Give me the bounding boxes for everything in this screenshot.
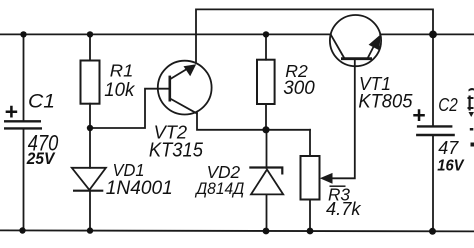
svg-text:4.7k: 4.7k (326, 198, 362, 219)
wire R3 top lead (309, 130, 311, 156)
transistor VT1 (330, 15, 381, 66)
potentiometer R3 (301, 156, 333, 200)
wire top outer rail (VT2 emitter to output node) (196, 9, 433, 62)
label R3 overline (330, 185, 346, 187)
resistor R2 (257, 60, 275, 104)
wire R1 bottom lead (89, 104, 91, 128)
capacitor C2 (416, 126, 455, 135)
wire C2 bottom lead (432, 135, 434, 231)
wire top rail left (input +) (0, 33, 331, 35)
junction VD1 bottom (87, 227, 93, 233)
svg-text:C1: C1 (28, 90, 55, 112)
wire VD2 cathode lead (266, 130, 268, 168)
svg-text:25V: 25V (26, 150, 56, 168)
wire C1 top lead (23, 34, 25, 121)
svg-text:KT315: KT315 (149, 139, 204, 162)
junction C1 bottom (19, 227, 25, 233)
junction R1 top (87, 31, 93, 37)
junction C1 top (20, 31, 26, 37)
wire R2 top lead (265, 34, 267, 59)
transistor VT2 (158, 61, 212, 115)
svg-text:+: + (412, 102, 425, 128)
wire VD1 anode lead (89, 128, 91, 168)
junction output node (429, 31, 437, 39)
junction C2 bottom (429, 228, 436, 235)
svg-text:1N4001: 1N4001 (106, 177, 173, 199)
junction R2 top (263, 31, 269, 37)
zener diode VD2 (249, 168, 283, 195)
wire R2 bottom lead (265, 104, 267, 130)
svg-text:+: + (4, 99, 17, 125)
junction VD2 bottom (263, 228, 270, 235)
junction node A (R1/VD1/VT2 base) (87, 125, 93, 131)
wire node A to VT2 base (90, 89, 169, 128)
resistor R1 (81, 61, 100, 104)
wire C1 bottom lead (23, 128, 25, 230)
wire C2 top lead (432, 34, 434, 126)
svg-text:47: 47 (438, 137, 459, 158)
wire R1 top lead (89, 34, 91, 60)
wire R3 bottom lead (309, 200, 311, 232)
svg-text:R1: R1 (110, 61, 134, 81)
wire top rail right (output +) (380, 33, 474, 35)
svg-text:KT805: KT805 (358, 91, 412, 113)
wire VT2 collector to node B (197, 113, 310, 130)
junction R3 bottom (307, 228, 314, 235)
wire VD2 anode lead (266, 194, 268, 231)
junction node B (VT2 collector/R2/VD2) (262, 126, 269, 133)
svg-text:16V: 16V (437, 157, 464, 174)
wire R3 wiper to VT1 base (332, 60, 355, 179)
capacitor C1 (4, 121, 42, 128)
diode VD1 (72, 168, 106, 191)
svg-text:300: 300 (283, 77, 315, 99)
node output marks (cut-off at right edge) (468, 88, 474, 147)
svg-text:10k: 10k (104, 79, 135, 101)
svg-text:C2: C2 (438, 94, 458, 115)
wire bottom rail (common) (0, 230, 474, 231)
wire VD1 cathode lead (89, 191, 91, 231)
svg-text:Д814Д: Д814Д (194, 179, 244, 198)
